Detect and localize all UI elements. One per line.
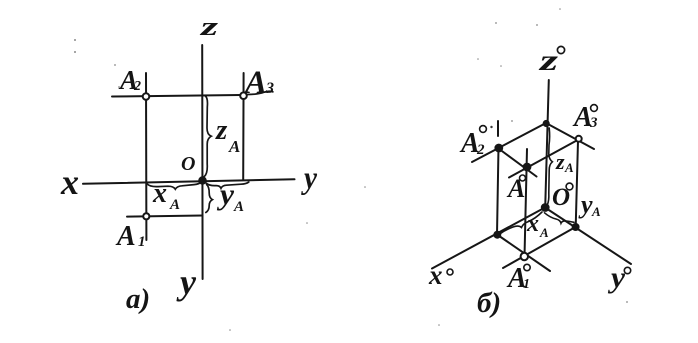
svg-text:y: y: [176, 262, 197, 302]
svg-text:A: A: [539, 225, 549, 240]
axis z0 and edge Z-O (vertical): [545, 80, 549, 208]
svg-text:3: 3: [265, 80, 274, 97]
svg-text:z: z: [538, 44, 558, 77]
brace x_A (horizontal under axis): [147, 181, 202, 189]
svg-text:б): б): [477, 287, 501, 319]
svg-text:A: A: [169, 197, 180, 213]
node A1 (open circle): [143, 213, 149, 219]
svg-text:y: y: [608, 261, 626, 294]
svg-text:A: A: [243, 65, 267, 101]
node X (junction dot): [494, 232, 500, 238]
svg-text:x: x: [526, 211, 539, 237]
axis y0 (down-right from O through Y): [545, 208, 631, 265]
svg-text:z: z: [199, 12, 219, 41]
edge Z-A3 extended: [546, 123, 594, 149]
speckles: [74, 8, 628, 331]
svg-text:A: A: [506, 174, 525, 203]
brace y_A (right diagram, under O-Y): [545, 213, 575, 223]
svg-text:y: y: [217, 178, 235, 211]
brace z_A (vertical, left diagram): [204, 96, 211, 177]
axis x-y (horizontal, left diagram): [83, 179, 295, 184]
edge Z-A2 extended: [472, 123, 546, 162]
swash of A3 label: [247, 91, 273, 94]
node A (dot): [524, 164, 531, 171]
edge A3-Y (vertical): [576, 141, 578, 227]
svg-text:а): а): [126, 283, 150, 315]
wire horizontal through A1: [127, 216, 203, 217]
tick above A2: [497, 121, 499, 136]
svg-text:O: O: [181, 153, 195, 175]
edge A2-A extended: [499, 149, 537, 177]
svg-text:z: z: [215, 114, 228, 146]
brace x_A (right diagram, under O-X): [500, 212, 542, 234]
line through A2 A3 (top horizontal): [112, 95, 241, 97]
svg-text:x: x: [152, 178, 167, 209]
svg-text:2: 2: [476, 142, 485, 158]
edge A3-A extended: [509, 140, 579, 178]
brace y_A vertical (below origin): [206, 185, 213, 213]
edge A-A1 (vertical): [525, 149, 528, 257]
wire vertical through A2 and A1: [145, 73, 147, 240]
node Z (junction dot): [544, 121, 549, 126]
svg-text:x: x: [428, 260, 443, 290]
svg-text:2: 2: [133, 79, 141, 94]
wire vertical through A3: [242, 73, 244, 180]
svg-text:1: 1: [138, 234, 146, 250]
node A3 (open circle): [240, 92, 247, 99]
svg-text:A: A: [228, 137, 240, 156]
svg-text:y: y: [578, 190, 593, 219]
svg-text:A: A: [115, 221, 136, 252]
node A1 (open circle): [521, 253, 528, 260]
svg-text:A: A: [233, 199, 244, 215]
edge A2-X (vertical): [497, 147, 499, 235]
node Y (junction dot): [573, 224, 579, 230]
node O (origin dot): [199, 177, 205, 183]
node O0 (dot): [542, 204, 549, 211]
svg-text:A: A: [564, 160, 574, 175]
svg-text:A: A: [591, 204, 601, 219]
axis x0 (down-left from O through X): [432, 208, 545, 269]
node A3 (open circle): [576, 136, 582, 142]
brace y_A horizontal (under y axis): [206, 182, 249, 188]
edge Y-A1 extended: [503, 227, 576, 268]
svg-text:3: 3: [589, 115, 598, 131]
node A2 (open circle): [143, 93, 150, 100]
node A2 (dot): [495, 145, 502, 152]
edge X-A1 extended: [497, 235, 550, 272]
svg-text:x: x: [60, 162, 79, 202]
brace z_A (right diagram, hugging z axis): [547, 128, 552, 205]
svg-text:1: 1: [523, 277, 530, 292]
svg-text:y: y: [300, 159, 317, 195]
svg-text:z: z: [555, 149, 565, 174]
axis z (vertical, left diagram): [201, 45, 203, 279]
